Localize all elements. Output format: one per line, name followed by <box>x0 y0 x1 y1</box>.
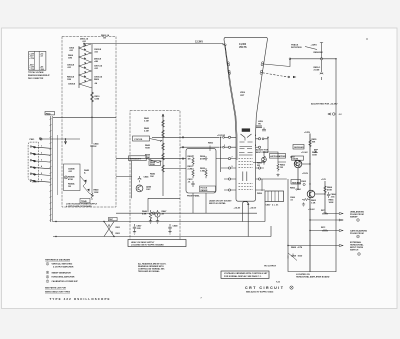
svg-text:& CRT PLATE CKT BOARD: & CRT PLATE CKT BOARD <box>66 205 92 208</box>
table cell text <box>29 53 44 71</box>
heater lead loop <box>242 202 248 237</box>
svg-text:1M: 1M <box>188 159 191 161</box>
junction label box P867 <box>109 217 118 220</box>
svg-text:CRT CIRCUIT: CRT CIRCUIT <box>245 286 284 290</box>
capacitor C848 <box>168 224 171 231</box>
svg-text:VERTICAL SWITCHING: VERTICAL SWITCHING <box>52 263 73 266</box>
svg-text:1M: 1M <box>68 186 71 188</box>
+12kV bus wire <box>290 58 336 60</box>
deflection plates <box>239 159 254 168</box>
svg-text:9: 9 <box>232 166 233 168</box>
CRT PDA ring 1 <box>227 62 264 66</box>
svg-text:2: 2 <box>41 153 42 155</box>
heater voltage wires <box>256 179 266 191</box>
svg-text:3: 3 <box>224 145 225 147</box>
cap C864 <box>327 192 330 198</box>
HV enclosure (low voltage power supply board) <box>62 37 116 208</box>
CRT neck terminals left <box>216 136 236 191</box>
svg-text:SEE PLUG DETAIL: SEE PLUG DETAIL <box>209 202 227 205</box>
svg-text:PULSE FROM: PULSE FROM <box>350 233 364 235</box>
wire astig node <box>253 152 286 163</box>
pot R828 intensity wiper <box>158 161 164 172</box>
transistor Q847 <box>136 185 143 192</box>
svg-text:FRONT PANEL: FRONT PANEL <box>187 195 201 198</box>
svg-text:R850: R850 <box>208 143 214 145</box>
svg-text:TYPE 422 OSCILLOSCOPE: TYPE 422 OSCILLOSCOPE <box>50 297 111 301</box>
bus junction dots <box>55 221 114 237</box>
neck pin numbers <box>224 135 256 168</box>
resistor R862 and cap C861 <box>277 162 279 172</box>
arrow down oscillator feed <box>64 139 66 144</box>
svg-text:1M: 1M <box>103 38 106 40</box>
svg-text:HV OUTPUT: HV OUTPUT <box>264 266 277 268</box>
wire ring2 off page arrow <box>263 73 288 77</box>
osc base feed <box>116 161 132 199</box>
svg-text:R809: R809 <box>94 79 100 81</box>
svg-text:READINGS MEASURED AT: READINGS MEASURED AT <box>28 74 51 77</box>
bias network interior resistors <box>191 155 207 187</box>
svg-text:6: 6 <box>255 135 256 137</box>
svg-text:R802: R802 <box>116 227 120 229</box>
svg-text:BEST FOCUS: BEST FOCUS <box>256 152 269 154</box>
resistor R846 <box>149 210 151 221</box>
svg-text:4: 4 <box>41 165 42 168</box>
ground under C847 <box>133 231 136 234</box>
svg-text:HORIZONTAL AMPLIFIER BOARD: HORIZONTAL AMPLIFIER BOARD <box>296 275 330 278</box>
crt control rail <box>220 137 222 172</box>
svg-text:14,000: 14,000 <box>239 43 247 46</box>
focus range label box <box>200 186 216 192</box>
svg-text:SEE PARTS LIST FOR: SEE PARTS LIST FOR <box>45 287 66 290</box>
svg-text:OSC: OSC <box>146 189 151 191</box>
page dot <box>366 38 367 39</box>
wire heater feed <box>42 138 80 140</box>
right mid rails <box>309 134 311 273</box>
svg-text:5: 5 <box>47 277 48 279</box>
svg-text:750K: 750K <box>145 148 150 150</box>
svg-text:R871: R871 <box>321 210 325 212</box>
connector P801 <box>28 142 38 182</box>
svg-text:2M: 2M <box>257 165 260 167</box>
svg-text:P801: P801 <box>30 139 36 141</box>
svg-text:1: 1 <box>47 264 48 266</box>
svg-text:39K: 39K <box>312 142 316 144</box>
wire left supply into enclosure <box>53 116 116 118</box>
CRT V859 envelope <box>224 37 267 199</box>
svg-text:2 x .01: 2 x .01 <box>272 205 279 207</box>
HV rectifier ladder rails <box>78 46 80 88</box>
svg-text:12.2KV: 12.2KV <box>195 41 203 44</box>
geom adj label box <box>293 145 304 150</box>
test point TP846 <box>152 212 155 215</box>
grid bias label box <box>149 161 161 166</box>
resistor R810 <box>91 92 94 102</box>
svg-text:6: 6 <box>41 180 42 182</box>
resistor R842 <box>162 130 165 137</box>
P801 header circle <box>39 138 41 140</box>
svg-text:3.3M: 3.3M <box>144 121 149 123</box>
svg-text:SWITCH: SWITCH <box>350 250 359 252</box>
ext horiz wire <box>288 245 325 247</box>
HV supply caption box <box>128 240 186 247</box>
svg-text:470K: 470K <box>68 178 73 181</box>
svg-text:5: 5 <box>41 173 42 175</box>
svg-text:GEOM ADJ: GEOM ADJ <box>294 146 304 149</box>
svg-text:+10.6V: +10.6V <box>308 209 315 211</box>
note box traces <box>221 271 269 278</box>
ground under R846 <box>149 219 152 223</box>
svg-text:C808-B: C808-B <box>68 84 76 86</box>
svg-text:+75V: +75V <box>29 58 34 60</box>
wire focus line to crt <box>116 158 186 160</box>
svg-text:LOCATED ON HV SUPPLY BOARD: LOCATED ON HV SUPPLY BOARD <box>131 244 164 247</box>
capacitor ladder elements <box>79 44 92 88</box>
output connector arrows <box>325 213 343 247</box>
HV supply enclosure B2 <box>130 111 180 242</box>
wire cathode line to crt <box>180 146 220 148</box>
svg-text:6.8K: 6.8K <box>142 214 147 216</box>
terminal circle <box>40 138 42 140</box>
svg-text:4.7M: 4.7M <box>298 246 303 249</box>
svg-text:+75V: +75V <box>29 69 34 71</box>
ground under R862 <box>276 174 279 177</box>
right enclosure rail <box>335 59 337 272</box>
svg-text:+12V: +12V <box>321 179 327 181</box>
svg-text:+118V: +118V <box>302 173 309 175</box>
focus control box <box>133 136 150 141</box>
svg-text:RANGE: RANGE <box>201 189 209 192</box>
circled ref grounds <box>357 219 360 222</box>
svg-text:R872: R872 <box>321 227 325 229</box>
svg-text:10K: 10K <box>150 176 154 178</box>
svg-text:+6B: +6B <box>94 61 98 63</box>
trace rotation network R859 <box>320 43 323 81</box>
crossing wires <box>104 222 114 237</box>
svg-text:REFERENCE DIAGRAMS: REFERENCE DIAGRAMS <box>45 259 70 262</box>
bus risers right <box>265 202 271 237</box>
svg-text:VOLTAGES OBTAINED WITH CONTROL: VOLTAGES OBTAINED WITH CONTROLS SET <box>224 272 268 275</box>
svg-text:1.5K: 1.5K <box>311 203 316 205</box>
svg-text:C845: C845 <box>144 176 150 179</box>
svg-text:100K: 100K <box>312 155 317 157</box>
pin numbers <box>41 146 42 182</box>
svg-text:D856: D856 <box>257 193 263 195</box>
CRT neck terminals right <box>256 138 287 180</box>
svg-text:T-22: T-22 <box>276 282 280 284</box>
pot R847 <box>155 212 160 217</box>
svg-text:2.2M: 2.2M <box>144 131 149 133</box>
pot R843 focus wiper <box>160 141 164 151</box>
svg-text:+12.4V: +12.4V <box>301 151 308 154</box>
svg-text:+10.6V: +10.6V <box>250 208 257 210</box>
svg-text:INTENSITY: INTENSITY <box>130 159 142 161</box>
svg-text:P867: P867 <box>109 219 113 221</box>
divider rail R841 chain <box>162 114 164 196</box>
transistor Q864 <box>307 190 315 198</box>
svg-text:HIGH VOLTAGE SUPPLY: HIGH VOLTAGE SUPPLY <box>131 241 155 244</box>
trace rotation coil L859 <box>256 126 262 128</box>
resistor R841 <box>162 120 165 127</box>
svg-text:135K: 135K <box>94 192 99 194</box>
ref item 5 <box>46 276 75 279</box>
svg-text:21.5M: 21.5M <box>314 70 320 72</box>
svg-text:FOCUS: FOCUS <box>135 139 143 141</box>
svg-text:CALIBRATOR & POWER SUP: CALIBRATOR & POWER SUP <box>52 280 79 283</box>
hv osc section divider <box>148 198 180 212</box>
astigmatism label box <box>270 154 286 159</box>
svg-text:ASTIGMATISM: ASTIGMATISM <box>270 155 285 158</box>
svg-text:8: 8 <box>255 145 256 147</box>
label box P866 <box>45 112 55 115</box>
resistor R863 <box>302 198 310 200</box>
bottom bus wires <box>53 221 265 223</box>
resistor R858 <box>309 140 311 147</box>
capacitor C845 <box>138 176 141 182</box>
svg-text:160K: 160K <box>329 202 334 204</box>
P801 pins <box>30 146 50 182</box>
svg-text:SEMICONDUCTOR TYPES: SEMICONDUCTOR TYPES <box>45 292 71 294</box>
wire grid line to crt <box>152 136 220 138</box>
diode symbols on ladder <box>79 44 92 83</box>
anode connection terminal <box>224 44 226 46</box>
svg-text:3: 3 <box>41 159 42 161</box>
svg-text:1.8M: 1.8M <box>200 171 205 173</box>
voltage conditions table <box>29 51 46 70</box>
geometry pot R860 <box>295 160 300 165</box>
svg-text:10M: 10M <box>67 79 71 81</box>
ground under R847 <box>156 220 159 224</box>
ground under R863 <box>302 203 305 207</box>
svg-text:SWEEP: SWEEP <box>350 217 358 219</box>
svg-text:1M: 1M <box>280 167 283 169</box>
ref item 4 <box>46 271 71 274</box>
diode chain D845 <box>80 176 94 196</box>
resistor R872 <box>322 230 328 232</box>
geom label box <box>292 156 304 160</box>
svg-text:C868: C868 <box>291 255 297 257</box>
Q864 collector tie <box>315 193 325 195</box>
horizontal board caption boundary <box>288 262 336 272</box>
svg-text:500K: 500K <box>150 164 155 166</box>
svg-text:ADJUST R859 FOR +12.2KV: ADJUST R859 FOR +12.2KV <box>311 102 338 105</box>
svg-text:ROTATION: ROTATION <box>291 46 302 49</box>
resistor R871 <box>322 213 328 215</box>
svg-text:R868: R868 <box>291 247 297 249</box>
svg-text:FOR NORMAL DISPLAY. SEE PAGE 7: FOR NORMAL DISPLAY. SEE PAGE 7-1. <box>224 275 262 278</box>
svg-text:TINGS AND NO SIGNAL.: TINGS AND NO SIGNAL. <box>138 270 160 273</box>
table caption <box>28 71 51 80</box>
timer sub-box B845 <box>64 164 81 191</box>
svg-text:7: 7 <box>232 157 233 159</box>
filter rail <box>287 179 289 262</box>
svg-text:V859: V859 <box>240 92 246 94</box>
svg-text:5.6M: 5.6M <box>95 99 100 101</box>
unblanking wire <box>310 214 330 221</box>
trace rotation pointer <box>305 47 317 50</box>
svg-text:GEOM: GEOM <box>292 158 298 160</box>
resistor R844 <box>162 153 165 160</box>
svg-text:+125V: +125V <box>304 132 311 134</box>
capacitor C847 <box>133 224 136 231</box>
svg-text:LOCATED ON: LOCATED ON <box>296 273 310 276</box>
svg-text:470K: 470K <box>327 189 332 192</box>
svg-text:P801 CONNECTOR: P801 CONNECTOR <box>28 78 44 80</box>
svg-text:R803: R803 <box>116 233 120 235</box>
svg-text:VOLTS: VOLTS <box>239 47 247 49</box>
CRT gun electrodes <box>239 129 253 155</box>
resistor R864 <box>324 186 326 193</box>
svg-text:HORIZONTAL AMPLIFIER: HORIZONTAL AMPLIFIER <box>52 276 75 279</box>
svg-text:+10.4V: +10.4V <box>234 207 241 210</box>
svg-text:470K: 470K <box>200 158 205 161</box>
cable harness strip <box>50 116 53 222</box>
svg-text:10M: 10M <box>68 58 72 60</box>
crt socket filter box <box>265 191 284 202</box>
svg-text:CRT: CRT <box>240 95 245 97</box>
Q857 collector tie <box>302 163 310 165</box>
svg-text:22M: 22M <box>319 52 323 54</box>
svg-text:TYPICAL VOLTAGE: TYPICAL VOLTAGE <box>28 71 44 74</box>
svg-text:SWEEP GENERATOR: SWEEP GENERATOR <box>52 271 72 274</box>
svg-text:7: 7 <box>47 281 48 283</box>
title ref circle <box>290 286 293 289</box>
transistor Q857 <box>294 160 302 168</box>
CRT base shell <box>236 199 256 201</box>
svg-text:SEE ALSO HV SUPPLY DIAG: SEE ALSO HV SUPPLY DIAG <box>246 290 274 293</box>
svg-text:& OUTPUT AMPLIFIER: & OUTPUT AMPLIFIER <box>53 266 74 269</box>
svg-text:R866: R866 <box>290 188 296 190</box>
svg-text:+12KV: +12KV <box>311 45 318 47</box>
neon lamp B845 <box>64 176 67 179</box>
svg-text:C848: C848 <box>173 225 179 228</box>
svg-text:1.5M: 1.5M <box>145 157 150 159</box>
rounded box crt bias network <box>186 148 216 193</box>
svg-text:1: 1 <box>41 146 42 148</box>
cap C862 <box>303 183 305 185</box>
ref item 7 <box>46 280 78 283</box>
diode D857 <box>314 150 318 153</box>
hum balance label box <box>291 180 301 185</box>
bias network drops <box>193 193 206 213</box>
svg-text:C867: C867 <box>266 205 272 207</box>
astigmatism pot R861 <box>263 154 265 165</box>
hv output diode D868 <box>288 253 297 261</box>
svg-text:Q864: Q864 <box>296 188 302 191</box>
gate blanking wire <box>310 230 330 232</box>
CRT PDA ring 2 <box>228 70 263 74</box>
wire 12.2kV anode lead <box>84 44 224 48</box>
svg-text:2.2M: 2.2M <box>188 169 193 171</box>
hv test jack J859 <box>328 113 331 115</box>
test point box TP845 <box>80 199 90 203</box>
wire ring1 to R859 node <box>264 59 290 67</box>
svg-text:+1970V: +1970V <box>217 135 225 137</box>
arrow up to +125V <box>162 114 164 117</box>
ref item 1 <box>46 263 74 269</box>
intensity control box <box>129 156 147 161</box>
svg-text:C862: C862 <box>301 181 307 183</box>
plate lead riser <box>267 137 269 152</box>
